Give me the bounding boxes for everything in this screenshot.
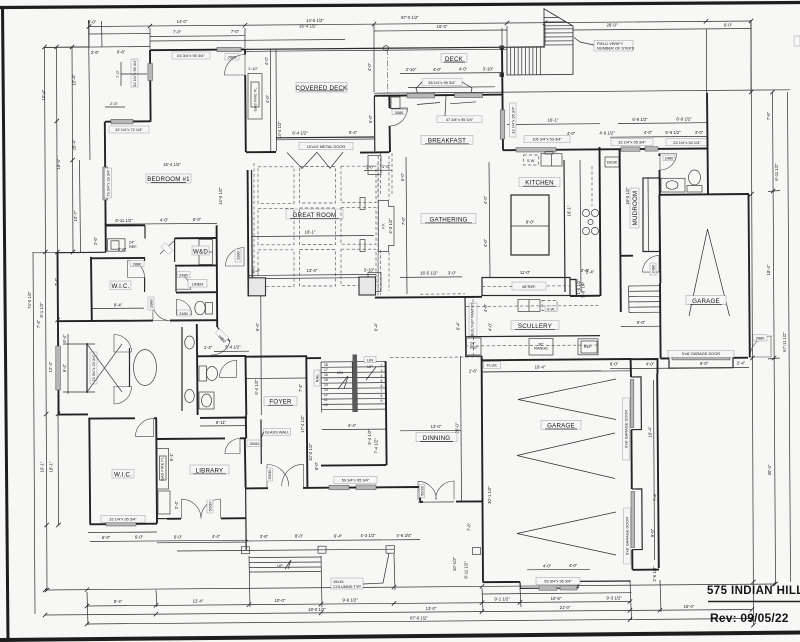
svg-text:7'-0": 7'-0" <box>231 29 240 34</box>
svg-text:11: 11 <box>324 398 328 402</box>
main stair <box>321 361 387 412</box>
dim 4'-4 stair <box>322 428 386 431</box>
svg-text:9'-4": 9'-4" <box>114 303 123 308</box>
washer dryer units <box>199 240 213 265</box>
deck stair posts <box>500 46 505 51</box>
svg-text:3: 3 <box>381 369 383 373</box>
WC room walls <box>197 355 246 357</box>
svg-text:6'-0": 6'-0" <box>102 535 111 540</box>
svg-text:6'-4": 6'-4" <box>255 322 260 331</box>
svg-text:18'-0 1/2": 18'-0 1/2" <box>308 607 326 612</box>
dims mudroom north row1 <box>618 122 707 125</box>
svg-text:8'-11": 8'-11" <box>216 420 227 425</box>
dim 7'-0 small <box>121 62 147 86</box>
svg-text:9'-0": 9'-0" <box>637 320 646 325</box>
svg-text:W.I.C.: W.I.C. <box>114 471 132 478</box>
svg-text:9'-1 1/2": 9'-1 1/2" <box>494 597 510 602</box>
svg-text:FLUE: FLUE <box>487 363 497 368</box>
svg-text:9'-3 1/2": 9'-3 1/2" <box>606 596 622 601</box>
dims breakfast north <box>408 86 495 89</box>
cabinet dashes right <box>591 166 593 206</box>
svg-text:RAIL: RAIL <box>315 373 320 382</box>
label window 73x23 vertical <box>105 168 112 198</box>
scullery upper dashed line <box>466 306 598 307</box>
svg-text:13'-0": 13'-0" <box>431 424 442 429</box>
wall gathering south y297 <box>375 296 465 299</box>
svg-text:3'-6": 3'-6" <box>260 534 269 539</box>
svg-text:3'-10": 3'-10" <box>406 67 417 72</box>
foyer center dim line <box>260 296 263 415</box>
svg-text:2'-6": 2'-6" <box>118 247 127 252</box>
svg-text:4'-3 1/2": 4'-3 1/2" <box>388 218 393 234</box>
svg-text:GAS FIRE PL: GAS FIRE PL <box>160 456 165 481</box>
svg-text:COLUMNS TYP.: COLUMNS TYP. <box>333 584 362 589</box>
svg-text:32 1/4"x 90 3/4": 32 1/4"x 90 3/4" <box>132 59 137 87</box>
svg-text:47 3/4"x 95 3/4": 47 3/4"x 95 3/4" <box>446 117 474 122</box>
svg-text:73 3/4"x 23 3/4": 73 3/4"x 23 3/4" <box>91 354 96 382</box>
svg-text:6: 6 <box>381 384 383 388</box>
powder sink counter <box>661 178 685 192</box>
svg-text:17'-4 1/2": 17'-4 1/2" <box>300 415 305 433</box>
page border left <box>3 6 9 641</box>
left dim line x72 <box>72 47 73 252</box>
svg-text:4'-0": 4'-0" <box>265 94 270 103</box>
svg-text:16'-0": 16'-0" <box>684 604 695 609</box>
label garage door right <box>668 350 734 357</box>
wall garage west x660 upper <box>659 195 660 284</box>
wall mudroom south y255.5 <box>621 255 634 257</box>
metal door header <box>276 136 374 139</box>
scullery range box <box>529 339 553 356</box>
svg-text:2480: 2480 <box>665 156 674 161</box>
small window box right of deck <box>391 97 400 109</box>
wall WIC2 west <box>88 418 91 525</box>
svg-text:16'-1": 16'-1" <box>548 118 559 123</box>
left dim line x89 upper <box>89 20 91 160</box>
room label MUDROOM vertical <box>630 188 639 228</box>
svg-text:6'-0": 6'-0" <box>368 114 373 123</box>
wall garage south y357.5 with door bay <box>661 357 749 360</box>
svg-text:18'-1": 18'-1" <box>567 205 572 216</box>
window on jog <box>111 119 133 124</box>
field verify note box <box>594 41 633 52</box>
double door library south 50/30 <box>182 499 221 519</box>
master bath window west <box>56 346 61 390</box>
svg-text:63 3/4"x 95 3/4": 63 3/4"x 95 3/4" <box>177 53 205 58</box>
room label LIBRARY <box>190 465 229 474</box>
svg-text:9'-0": 9'-0" <box>700 361 709 366</box>
svg-text:2'-6": 2'-6" <box>91 50 100 55</box>
room label GARAGE right <box>686 296 726 305</box>
svg-text:3'-4": 3'-4" <box>252 269 261 274</box>
left dim line x34 74'-0 1/2" <box>33 252 35 614</box>
svg-text:59 3/4"x 95 3/4": 59 3/4"x 95 3/4" <box>544 579 572 584</box>
door arc breakfast west 3080 <box>390 108 408 126</box>
niche box great room east 2 <box>360 240 365 252</box>
wall great room north segments <box>246 151 390 154</box>
svg-text:GAS FIRE PL: GAS FIRE PL <box>253 87 258 112</box>
svg-text:2880: 2880 <box>756 336 765 341</box>
dim 13'-0 dining <box>400 429 461 432</box>
LIN closet label <box>364 357 376 363</box>
svg-text:8'-4": 8'-4" <box>114 599 123 604</box>
desk box <box>605 157 619 167</box>
scullery east REF <box>581 341 597 353</box>
wall foyer west x246 <box>245 415 247 438</box>
svg-text:50/30: 50/30 <box>420 485 425 496</box>
room label DECK <box>441 54 467 63</box>
wall stair west x307 <box>306 356 307 487</box>
room label W&D <box>192 246 209 255</box>
svg-text:S.W.: S.W. <box>527 158 535 163</box>
wall kitchen west x502 <box>502 48 503 150</box>
svg-text:W&D: W&D <box>193 249 208 256</box>
wall dining south y501.5 <box>420 500 482 503</box>
bottom dim row B line <box>87 602 630 607</box>
wall kitchen north y147.5 <box>503 149 620 150</box>
svg-text:3'-0": 3'-0" <box>366 164 375 169</box>
tub platform <box>129 348 131 387</box>
right garage triangle <box>689 229 730 316</box>
bottom dim long line row A <box>45 584 774 590</box>
svg-text:5: 5 <box>381 379 383 383</box>
svg-text:9'-0": 9'-0" <box>650 528 655 537</box>
garage north doorway walls <box>631 359 658 374</box>
WIC1 walls <box>90 257 93 321</box>
shaft dims <box>364 169 392 171</box>
svg-text:6'-4": 6'-4" <box>456 321 461 330</box>
wall bedroom north <box>150 48 245 51</box>
svg-text:5'-1": 5'-1" <box>169 452 174 461</box>
water heater box <box>108 239 126 251</box>
svg-text:7'-4": 7'-4" <box>298 383 303 392</box>
angled master entry door 2880 <box>217 327 230 342</box>
svg-text:59 3/4"x 95 3/4": 59 3/4"x 95 3/4" <box>342 477 370 482</box>
wall bedroom west upper <box>149 50 152 122</box>
svg-text:3'-10": 3'-10" <box>364 268 375 273</box>
room label COVERED DECK <box>296 83 347 93</box>
door arc master entry <box>153 304 170 321</box>
motor court jog <box>632 569 659 571</box>
wall west nook <box>58 251 106 253</box>
dims below corridor <box>214 350 249 352</box>
dim line top row3 bedroom 16'-4 1/2 / 7'-6 <box>150 40 345 42</box>
wall W&D north <box>175 237 217 239</box>
windows mudroom north <box>621 147 640 151</box>
svg-text:6'-4": 6'-4" <box>374 322 379 331</box>
svg-text:7'-4 1/2": 7'-4 1/2" <box>374 438 379 454</box>
svg-text:12: 12 <box>324 393 328 397</box>
mudroom closet <box>643 178 660 252</box>
svg-text:18'-1": 18'-1" <box>49 461 54 472</box>
svg-text:9'-6 1/2": 9'-6 1/2" <box>342 598 358 603</box>
svg-text:13: 13 <box>324 388 328 392</box>
room label KITCHEN <box>519 178 560 187</box>
svg-text:16'-4 1/2": 16'-4 1/2" <box>163 162 181 167</box>
svg-text:6'-4": 6'-4" <box>62 334 67 343</box>
dim line top row4 <box>45 47 150 48</box>
wall center garage east lower <box>631 550 633 570</box>
svg-text:4'-0": 4'-0" <box>264 56 269 65</box>
deck stairs upper flight treads <box>544 29 573 45</box>
door mudroom south 2480 <box>643 256 660 273</box>
scullery dashed box <box>542 301 557 311</box>
porch side wall x245 lower <box>245 488 248 550</box>
shower X <box>87 344 122 392</box>
door arcs library north 30/00 <box>225 439 240 454</box>
svg-text:6'-6": 6'-6" <box>117 50 126 55</box>
stair rail center <box>353 362 358 412</box>
label 2480 linen <box>177 272 190 278</box>
wall linen south <box>176 291 217 293</box>
svg-text:2480: 2480 <box>179 311 188 316</box>
dim 2'-6 small above jog <box>105 106 125 108</box>
svg-text:8'-11 1/2": 8'-11 1/2" <box>464 561 469 579</box>
metal door fold marks <box>287 152 343 168</box>
svg-text:30'-4": 30'-4" <box>767 464 772 475</box>
svg-text:8'-0": 8'-0" <box>295 534 304 539</box>
svg-text:UP: UP <box>277 563 283 568</box>
garage door bay east 2 <box>632 489 642 550</box>
svg-text:KITCHEN: KITCHEN <box>525 180 554 187</box>
wall foyer west jog y417 <box>200 417 247 419</box>
windows breakfast north <box>407 93 435 98</box>
library gas fireplace <box>157 449 169 490</box>
wall breakfast west x374 upper <box>373 96 375 151</box>
svg-text:32 1/4"x 72 1/4": 32 1/4"x 72 1/4" <box>115 127 143 132</box>
stair hall: wall north y358 <box>307 357 321 359</box>
svg-text:32 1/4"x 95 3/4": 32 1/4"x 95 3/4" <box>510 106 515 134</box>
wall dining south jog x420 <box>419 487 421 502</box>
room label WIC1 <box>110 281 131 290</box>
covered deck column line double <box>270 49 276 151</box>
kitchen island <box>511 195 549 255</box>
door arc bedroom deck door <box>225 54 246 75</box>
wall library south y518 <box>167 517 247 520</box>
svg-text:6'-11 1/2": 6'-11 1/2" <box>115 218 133 223</box>
svg-text:BEDROOM #1: BEDROOM #1 <box>147 176 190 183</box>
label window 32x95 WIC2 <box>101 515 145 522</box>
wall WIC2 south <box>90 523 157 526</box>
label window garage 59x95 <box>536 578 580 585</box>
label 2880 vertical corridor <box>235 249 241 262</box>
svg-text:LIN: LIN <box>367 357 373 362</box>
svg-text:8: 8 <box>381 394 383 398</box>
svg-text:4'-0": 4'-0" <box>160 218 169 223</box>
window kitchen north <box>516 148 556 152</box>
door linen arc <box>176 275 191 290</box>
svg-text:4'-0": 4'-0" <box>433 67 442 72</box>
RAIL label <box>314 370 320 386</box>
scullery REF box <box>578 339 598 355</box>
page border bottom <box>0 633 800 641</box>
svg-text:9'-4": 9'-4" <box>349 130 358 135</box>
svg-text:32 1/4"x 95 3/4": 32 1/4"x 95 3/4" <box>109 516 137 521</box>
dim extension verticals top <box>88 20 90 47</box>
svg-text:9: 9 <box>381 399 383 403</box>
deck dims row <box>400 72 502 75</box>
svg-text:GATHERING: GATHERING <box>429 216 467 223</box>
svg-text:9'-1 1/2": 9'-1 1/2" <box>39 302 44 318</box>
wall mudroom north y151 <box>620 148 708 151</box>
svg-text:4'-0": 4'-0" <box>483 238 488 247</box>
dims WIC2 row bottom <box>90 540 248 541</box>
cased opening dashes great room east <box>378 156 389 291</box>
kitchen back counters row <box>482 278 570 296</box>
svg-text:DINNING: DINNING <box>423 435 451 442</box>
wall corridor east x216.5 <box>216 225 219 327</box>
svg-text:2'-6": 2'-6" <box>469 368 478 373</box>
door W&D angled <box>160 240 175 254</box>
svg-text:15: 15 <box>324 378 328 382</box>
deck stairs winder treads <box>544 17 572 25</box>
dims garage south row <box>610 368 749 369</box>
cabinet box great room east top <box>368 156 381 175</box>
bottom dim extension verticals <box>87 592 88 625</box>
bottom dim row D line 87'-0 1/2 <box>87 619 752 625</box>
svg-text:7'-6": 7'-6" <box>766 111 771 120</box>
svg-text:6'-0": 6'-0" <box>400 172 405 181</box>
gathering left dim col <box>406 157 407 294</box>
wall scullery south y359.5 <box>482 359 631 360</box>
svg-text:16'-1": 16'-1" <box>40 461 45 472</box>
svg-text:2'-4": 2'-4" <box>174 500 179 509</box>
svg-text:13'-4": 13'-4" <box>307 268 318 273</box>
svg-text:6'-0": 6'-0" <box>88 20 97 25</box>
dim line top row2 right 28'-0 / 6'-0 <box>573 29 751 31</box>
svg-text:24 1/4"x 54 1/4": 24 1/4"x 54 1/4" <box>673 140 701 145</box>
svg-text:S.W.: S.W. <box>547 307 555 312</box>
svg-text:4: 4 <box>381 374 383 378</box>
svg-text:18: 18 <box>324 363 328 367</box>
svg-text:4'-9 1/2": 4'-9 1/2" <box>599 130 615 135</box>
svg-text:20'-0": 20'-0" <box>455 422 460 433</box>
labels mudroom windows <box>611 138 653 145</box>
svg-text:4'-4": 4'-4" <box>348 423 357 428</box>
small box near garage wall <box>473 548 481 555</box>
svg-text:6'-4": 6'-4" <box>334 533 343 538</box>
svg-text:87'-0 1/2": 87'-0 1/2" <box>410 616 428 621</box>
porch dims row <box>157 540 420 543</box>
wall center garage south y582 <box>483 581 520 583</box>
leader to stairs <box>574 38 594 46</box>
svg-text:Rev: 09/05/22: Rev: 09/05/22 <box>710 611 789 625</box>
wall breakfast north y93.6 <box>375 95 503 96</box>
room label SCULLERY <box>511 321 559 330</box>
dim 16'-4 motor court vertical <box>654 380 655 560</box>
wall kitchen east x600 <box>600 147 601 296</box>
svg-text:DESK: DESK <box>607 160 618 165</box>
door arc bath lower <box>114 387 132 405</box>
wall WIC2 east x156 <box>155 418 158 523</box>
wall W&D west <box>174 238 176 262</box>
svg-text:67'-11 1/2": 67'-11 1/2" <box>782 332 787 352</box>
wall WIC2 north <box>89 417 157 419</box>
svg-text:GLASS WALL: GLASS WALL <box>265 430 290 435</box>
porch floor line <box>177 549 394 551</box>
wall scullery north y296 <box>465 296 600 297</box>
wall south y320 <box>58 320 218 321</box>
svg-text:30'-1 1/2": 30'-1 1/2" <box>487 486 492 504</box>
garage door bay east 1 <box>631 377 641 430</box>
gas fireplace outdoor <box>248 74 262 120</box>
svg-text:1'-10": 1'-10" <box>248 66 259 71</box>
FLUE label <box>484 362 501 369</box>
left dim line x45 <box>45 47 48 590</box>
svg-text:6'-4 1/2": 6'-4 1/2" <box>254 379 259 395</box>
svg-text:12'-4": 12'-4" <box>193 599 204 604</box>
scullery 24 REF <box>467 338 482 355</box>
svg-text:9'x8' GARAGE DOOR: 9'x8' GARAGE DOOR <box>625 517 630 555</box>
label window 38x95 <box>422 79 462 86</box>
label 2480 bath <box>177 310 190 316</box>
wall closet divider x145 <box>144 225 146 238</box>
svg-text:7'-0": 7'-0" <box>115 70 120 78</box>
window bedroom west <box>148 64 153 81</box>
svg-text:8'-0": 8'-0" <box>314 461 319 470</box>
svg-text:GARAGE: GARAGE <box>547 423 575 430</box>
svg-text:4'-6 3/4": 4'-6 3/4" <box>396 533 412 538</box>
door arc WC <box>220 360 237 377</box>
svg-text:17: 17 <box>324 368 328 372</box>
svg-text:BREAKFAST: BREAKFAST <box>428 137 466 144</box>
svg-text:2880: 2880 <box>133 261 142 266</box>
svg-text:18'-4": 18'-4" <box>766 264 771 275</box>
wall linen west <box>175 267 177 292</box>
svg-text:3'-0": 3'-0" <box>448 270 457 275</box>
svg-text:5'-6" UP: 5'-6" UP <box>581 282 586 298</box>
dims garage windows <box>527 568 590 571</box>
label window 32x90 vertical <box>131 59 138 87</box>
svg-text:9'-0": 9'-0" <box>526 220 535 225</box>
wall bedroom south <box>105 224 145 226</box>
svg-text:6'-0": 6'-0" <box>174 534 183 539</box>
wall great room west x247.5 <box>247 170 250 297</box>
svg-text:14: 14 <box>324 383 328 387</box>
glass wall <box>260 420 262 465</box>
svg-text:4'-0": 4'-0" <box>367 62 372 71</box>
wall garage west x660 lower <box>659 283 662 359</box>
svg-text:6'-9 1/2": 6'-9 1/2" <box>676 116 692 121</box>
wall center garage west x482 <box>482 356 483 582</box>
svg-text:2'-6": 2'-6" <box>110 101 118 106</box>
svg-text:15'x10' METAL DOOR: 15'x10' METAL DOOR <box>307 144 346 149</box>
svg-text:16'-5 1/2": 16'-5 1/2" <box>420 271 438 276</box>
porch column bases <box>242 547 250 554</box>
svg-text:4'-4": 4'-4" <box>212 534 221 539</box>
wall bath south <box>58 413 88 415</box>
svg-text:10'-1/2": 10'-1/2" <box>452 556 457 571</box>
svg-text:NUMBER OF STEPS: NUMBER OF STEPS <box>597 46 635 51</box>
svg-text:7: 7 <box>381 389 383 393</box>
label 2880 master entry <box>148 297 154 310</box>
svg-text:6'-0": 6'-0" <box>135 535 144 540</box>
wall library north y438.5 <box>157 437 246 440</box>
stair south wall y465 <box>321 464 386 467</box>
svg-text:1'-4": 1'-4" <box>204 345 213 350</box>
vanity counter <box>181 327 183 411</box>
wall mudroom east x659.5 <box>658 154 661 195</box>
wall breakfast west x389.5 <box>388 96 391 152</box>
svg-text:2880: 2880 <box>236 250 241 259</box>
dim 18'-1 great room <box>252 236 374 237</box>
windows garage south <box>539 586 557 590</box>
dim line below garage windows <box>482 593 632 594</box>
svg-text:4'-0": 4'-0" <box>646 361 655 366</box>
svg-text:48"REF.: 48"REF. <box>522 284 536 289</box>
room label GATHERING <box>421 214 476 224</box>
right dim ticks <box>768 191 780 192</box>
